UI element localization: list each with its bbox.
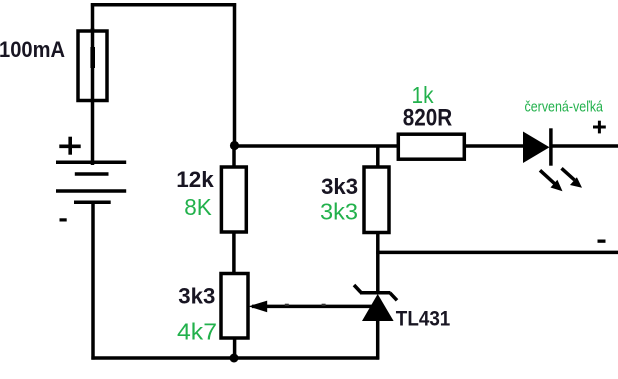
LED D1 (diode triangle, cathode bar, emission arrows) <box>523 128 582 191</box>
resistor R2 3k3 <box>364 167 389 233</box>
svg-text:4k7: 4k7 <box>177 319 217 345</box>
svg-text:TL431: TL431 <box>396 306 451 330</box>
wire top rail down to node A <box>233 3 237 147</box>
resistor R1 12k <box>221 167 246 232</box>
resistor R3 820R <box>398 134 464 159</box>
svg-text:3k3: 3k3 <box>178 284 215 309</box>
wire resistor 820R to LED anode <box>463 144 525 148</box>
potentiometer wiper arrow <box>248 301 267 313</box>
label plus output <box>593 121 606 134</box>
svg-text:12k: 12k <box>176 167 214 192</box>
wire potentiometer bottom to bottom rail <box>233 337 237 360</box>
wire fuse to top rail <box>91 3 95 30</box>
wire resistor 12k to potentiometer <box>232 231 236 276</box>
svg-text:červená-veľká: červená-veľká <box>525 98 604 115</box>
wire LED cathode to plus output <box>550 144 618 148</box>
wire battery positive terminal up to fuse <box>91 28 95 165</box>
svg-text:100mA: 100mA <box>0 37 65 62</box>
label battery minus <box>60 218 67 221</box>
wire tick artifact 2 on wiper line <box>322 304 326 306</box>
wire node A down to resistor 12k <box>232 144 236 169</box>
svg-text:820R: 820R <box>403 105 453 132</box>
wire bottom rail <box>91 356 379 360</box>
node A junction dot <box>230 141 239 150</box>
label minus output <box>598 240 606 243</box>
wire minus output rail <box>376 251 618 255</box>
wire tick artifact on wiper line <box>285 304 289 306</box>
battery B1 plates <box>56 162 126 202</box>
wire top rail horizontal <box>91 3 236 7</box>
wire TL431 anode to bottom rail <box>376 319 380 360</box>
wire resistor 3k3 to TL431 cathode <box>376 231 380 294</box>
wire wiper to TL431 reference <box>252 305 374 309</box>
svg-text:8K: 8K <box>184 194 212 220</box>
wire main rail node A to resistor 820R <box>233 144 400 148</box>
wire main rail down to resistor 3k3 <box>376 145 380 170</box>
node B junction dot (pot bottom / bottom rail) <box>230 354 239 363</box>
label battery plus <box>59 137 80 155</box>
svg-text:3k3: 3k3 <box>321 174 358 199</box>
potentiometer P1 body <box>221 274 248 339</box>
TL431 U1 (shunt regulator symbol) <box>354 285 397 321</box>
wire battery negative down <box>91 201 95 360</box>
svg-text:3k3: 3k3 <box>320 198 358 224</box>
fuse F1 100mA (rectangle with wire through) <box>90 47 95 68</box>
